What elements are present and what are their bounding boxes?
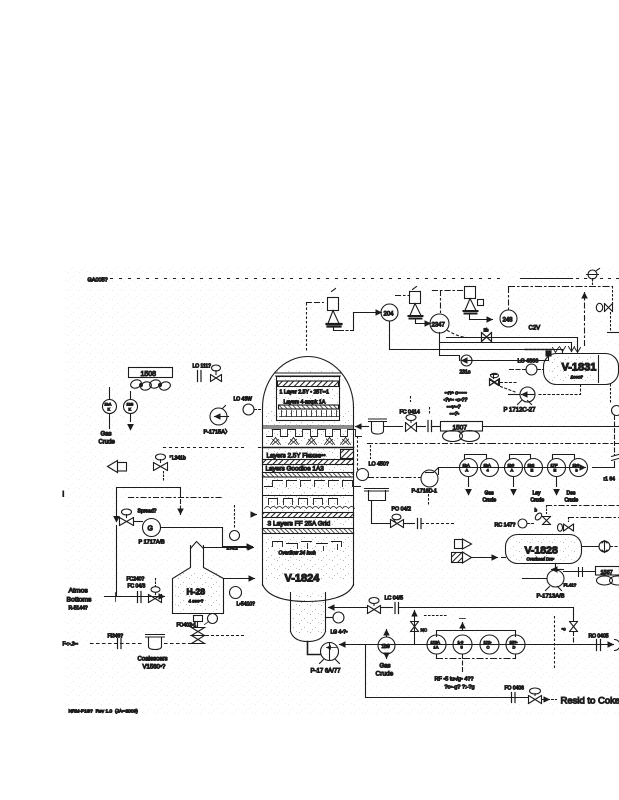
orifice LO-111	[193, 364, 212, 382]
orifice FI on feed	[138, 592, 142, 603]
valve FC-0414	[400, 397, 426, 432]
pump P-1717A/B	[134, 519, 166, 546]
wire top boundary dotted line	[111, 278, 619, 280]
label Layers 4-maxpk 1A	[284, 400, 326, 406]
instrument LO-450	[357, 462, 421, 481]
label F line bottom left	[63, 642, 143, 648]
label C2V	[529, 326, 541, 332]
heater 182B	[453, 635, 472, 654]
wire cooler 1507 line into column	[356, 426, 369, 428]
relief valve PSV-B	[409, 292, 423, 319]
exchanger 169B	[481, 459, 499, 477]
wire dash-dot under 1507	[368, 444, 491, 459]
column section line	[263, 495, 354, 497]
hatch band low 1	[263, 513, 354, 518]
exchanger 169C	[505, 459, 523, 477]
orifice on 1507 line	[428, 408, 441, 432]
orifice right of P-1713A/B	[564, 568, 596, 588]
label Gas Crude train	[483, 491, 497, 504]
instrument right edge circle	[612, 406, 619, 456]
valve IIb on line 1	[482, 328, 492, 342]
label Des Crude train	[565, 491, 579, 504]
nozzle valves on V-1831 top	[553, 347, 581, 353]
wire atmos feed line	[105, 593, 165, 602]
instrument LO-43W	[234, 397, 263, 416]
wire drain vertical	[116, 526, 118, 597]
instrument LC-4366	[510, 359, 544, 376]
valve NO right	[562, 622, 609, 645]
valve LC-0415	[368, 596, 404, 614]
label Coalescers V1560	[138, 657, 168, 671]
relief valve PSV-A	[327, 289, 342, 327]
wire dash-dot instrument line	[129, 498, 223, 515]
heater 182C	[480, 635, 499, 654]
wire instrument drops	[110, 414, 134, 430]
label H-28	[187, 587, 206, 604]
label Gas Crude left	[99, 432, 116, 446]
heater 182D	[506, 635, 525, 654]
pencil note italic	[444, 391, 468, 418]
instrument PI-2487	[500, 310, 517, 327]
battlement row	[267, 430, 362, 437]
vessel V-1831	[544, 354, 619, 385]
exchanger 169D	[525, 459, 543, 477]
label 3 Layers FF 25A Grid	[268, 521, 331, 528]
instrument 169 on bottoms	[376, 630, 396, 678]
wire dash-dot top mid right	[358, 437, 619, 471]
instrument 1bA	[103, 400, 117, 414]
heater 182A	[427, 635, 446, 654]
wire dash-dot vertical right mid	[554, 617, 556, 669]
wire boot outlet line	[329, 607, 367, 609]
orifice FI-346	[108, 634, 124, 649]
instrument right of V-1828	[582, 541, 619, 553]
distributor step row 1	[265, 481, 361, 487]
wire dash to PSV-A	[307, 303, 324, 353]
label 1 Layer 2.5Y	[280, 390, 330, 396]
valve NC	[411, 622, 428, 633]
nozzle under H-28	[191, 614, 206, 627]
pump P-1716D-1	[412, 468, 439, 506]
vessel Coalescers V-1560	[146, 635, 197, 650]
label Atmos Bottoms	[67, 588, 93, 612]
wire dash-dot to PSV-C	[433, 291, 465, 313]
label P-1712C-27	[504, 408, 537, 414]
cooler fan 1567 right edge	[596, 567, 619, 586]
pump P-1712C-27	[509, 385, 581, 405]
valve angle A above V-1828	[534, 506, 619, 525]
wire 1508 to instruments	[110, 388, 131, 400]
wire 1507 outlet to right edge	[483, 426, 619, 428]
hatch band mid 2	[263, 473, 354, 478]
instrument RC-147	[495, 519, 535, 529]
wire exchanger train line	[439, 468, 615, 475]
column inner distributor box	[277, 377, 340, 421]
label drawing number	[69, 709, 139, 715]
label GA005	[88, 278, 108, 284]
wire pump 231c discharge	[473, 351, 552, 361]
wire PSV-B outlet to 2347	[416, 319, 431, 324]
wire dash-dot down to 2487	[508, 288, 510, 310]
label Resid to Coker	[561, 696, 619, 707]
wire H-28 top to column	[204, 547, 254, 549]
column boot	[291, 593, 326, 642]
wire P-1713 return riser	[573, 608, 575, 621]
label Ley Crude train	[531, 491, 545, 504]
distributor step row 2	[273, 542, 342, 551]
riser row with scallops	[265, 499, 355, 509]
wire reflux loop	[114, 488, 181, 522]
exchanger 169F	[570, 459, 588, 477]
flame arrestor into V-1828	[452, 552, 506, 563]
column top chord lines	[275, 373, 342, 376]
wire exchanger brackets top	[465, 455, 575, 459]
wire pump discharge to column	[161, 528, 253, 547]
valve top right with actuator	[596, 303, 619, 332]
wire overhead line 2 to V-1831	[440, 333, 572, 356]
hatch band top 1	[278, 381, 339, 387]
label i	[63, 492, 65, 499]
off-page connector left arrow	[108, 461, 127, 473]
wire overhead line 1 to V-1831	[447, 338, 578, 352]
wire H-28 side to column	[224, 578, 255, 580]
spray nozzle row	[271, 438, 351, 445]
valve Spread	[120, 509, 157, 526]
relief valve PSV-C	[464, 287, 484, 314]
instrument LO-410 right of H-28	[230, 587, 256, 608]
pump 231c	[440, 355, 474, 376]
valve butterfly left of P-1712C-27	[490, 373, 517, 392]
label V-1824	[285, 573, 321, 585]
label Overflow 24 inch	[279, 551, 316, 557]
wire dash-dot to PSV-B	[396, 287, 417, 296]
instrument 1bB	[124, 400, 138, 414]
valve PO-04/2	[372, 507, 456, 529]
column V-1824 shell	[263, 357, 354, 602]
vent to atmosphere symbol	[587, 269, 600, 287]
tick row in inner box	[280, 411, 339, 417]
vessel H-28	[173, 542, 224, 614]
orifice right edge	[604, 455, 619, 483]
strainer fitting left of pump	[365, 489, 389, 524]
valve resid to coker	[529, 688, 557, 704]
wire riser to NC valve	[415, 611, 449, 645]
pump P-1713A/B	[523, 564, 565, 600]
hatch band low 2	[263, 529, 354, 534]
pump P-1715A	[204, 406, 231, 436]
hatch band mid 1	[263, 460, 354, 465]
wire dash-dot riser to V-1831	[584, 293, 586, 346]
valve L341b	[154, 454, 186, 481]
wire dash-dot right edge down from drum	[610, 385, 612, 405]
cooler fan 1508	[129, 368, 173, 392]
wire bottoms main line	[340, 644, 609, 646]
wire overhead line 3 to V-1831	[390, 322, 563, 353]
instrument 2-14.2	[227, 506, 240, 551]
valve angle B above V-1828	[558, 518, 619, 532]
wire squiggle from 2347	[448, 331, 467, 338]
instrument LG boot	[326, 612, 348, 636]
orifice FO-0406	[505, 686, 525, 703]
orifice end of bottoms line	[597, 640, 619, 651]
label V-1828	[525, 545, 558, 562]
packing band heavy line	[263, 447, 354, 449]
column tray line	[263, 426, 354, 428]
exchanger 169A	[460, 459, 478, 477]
wire exchanger drains	[466, 477, 559, 495]
vessel V-1828	[506, 535, 582, 564]
hatch band top 2	[279, 405, 339, 409]
wire column feed arrows left wall	[253, 514, 257, 516]
exchanger 169E	[548, 459, 566, 477]
wire heater bracket bottom dashed	[437, 655, 516, 673]
label V-1831	[562, 362, 597, 380]
orifice on boot line	[395, 603, 574, 614]
wire dotted top of pump section	[164, 447, 301, 449]
label Layers 2.5Y Flexes band	[267, 450, 354, 460]
instrument I-204	[381, 304, 398, 321]
pump P-17-6A/77	[308, 642, 342, 675]
scan noise overlay	[63, 267, 619, 715]
heater bank circles bracket	[437, 619, 516, 637]
valve small top of 1507 area	[490, 375, 517, 386]
instrument TI-2347	[430, 314, 449, 333]
wire resid line	[366, 645, 528, 698]
label RF bundles	[435, 677, 475, 691]
valve with globe top left	[211, 365, 222, 382]
cooler fan 1507	[441, 422, 483, 442]
spectacle blind under H-28	[177, 614, 244, 644]
label Layers Goodloe 1A3	[266, 466, 325, 473]
off-page connector into V-1828	[455, 539, 472, 549]
wire PSV-A outlet jog	[334, 313, 382, 331]
wire signal dash-dot top right	[509, 287, 613, 304]
desuperheater pot on 1507 line	[369, 419, 403, 434]
wire PSV-C outlet to 2487	[470, 314, 493, 320]
valve FC-0413 on feed	[127, 577, 162, 603]
